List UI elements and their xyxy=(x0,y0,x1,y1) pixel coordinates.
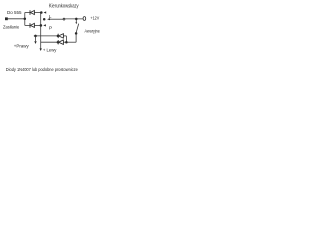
terminal Zasilanie xyxy=(5,17,8,20)
wire top diode anode link xyxy=(63,35,66,37)
arrow to wiring row D1 xyxy=(44,11,47,13)
svg-text:+Prawy: +Prawy xyxy=(14,44,29,50)
diode D3 xyxy=(58,34,63,38)
wire bus vertical Lewy xyxy=(40,13,42,49)
wire switch upper stub xyxy=(75,19,77,22)
node switch junction xyxy=(75,18,78,21)
wire supply horizontal xyxy=(8,18,25,20)
svg-text:P: P xyxy=(49,26,52,32)
svg-text:Kierunkowskazy: Kierunkowskazy xyxy=(49,3,79,9)
wire bottom rail anode side xyxy=(63,41,76,43)
wire D1 anode row xyxy=(25,12,30,14)
diode D1 xyxy=(30,10,34,15)
node D2-bus xyxy=(40,24,43,27)
wire L line xyxy=(49,18,63,20)
diode D2 xyxy=(30,23,34,28)
arrow L xyxy=(47,18,50,20)
node anode link junction xyxy=(65,41,68,44)
terminal +12V xyxy=(83,17,86,21)
wire switch lower stub xyxy=(75,34,77,43)
switch Awaryjne contact arrow xyxy=(75,22,77,24)
wire top rail Prawy xyxy=(34,35,58,37)
wire +12V feed line xyxy=(65,18,83,20)
diode D4 xyxy=(58,40,63,44)
wire D2 anode row xyxy=(25,24,30,26)
node junction supply xyxy=(24,18,27,21)
arrow +Prawy xyxy=(35,36,37,41)
node top rail diode xyxy=(57,35,60,38)
svg-text:Awaryjne: Awaryjne xyxy=(85,29,101,35)
node bottom rail diode xyxy=(57,41,60,44)
svg-text:Do 555: Do 555 xyxy=(7,10,22,16)
node Prawy tap xyxy=(34,35,37,38)
arrow +Lewy bus end xyxy=(40,48,42,51)
svg-text:Zasilanie: Zasilanie xyxy=(3,25,19,31)
wire left vertical xyxy=(24,13,26,26)
svg-text:+ Lewy: + Lewy xyxy=(43,47,57,53)
node D1-bus xyxy=(40,11,43,14)
node L start xyxy=(43,18,46,21)
node small circle mid xyxy=(63,18,65,20)
svg-text:L: L xyxy=(49,14,52,20)
arrow P xyxy=(43,24,46,26)
wire bottom rail xyxy=(41,41,58,43)
svg-text:+12V: +12V xyxy=(90,16,99,22)
node switch bottom xyxy=(75,32,78,35)
svg-text:Diody 1N4007 lub podobne prost: Diody 1N4007 lub podobne prostownicze xyxy=(6,67,78,73)
switch Awaryjne blade xyxy=(76,24,79,33)
